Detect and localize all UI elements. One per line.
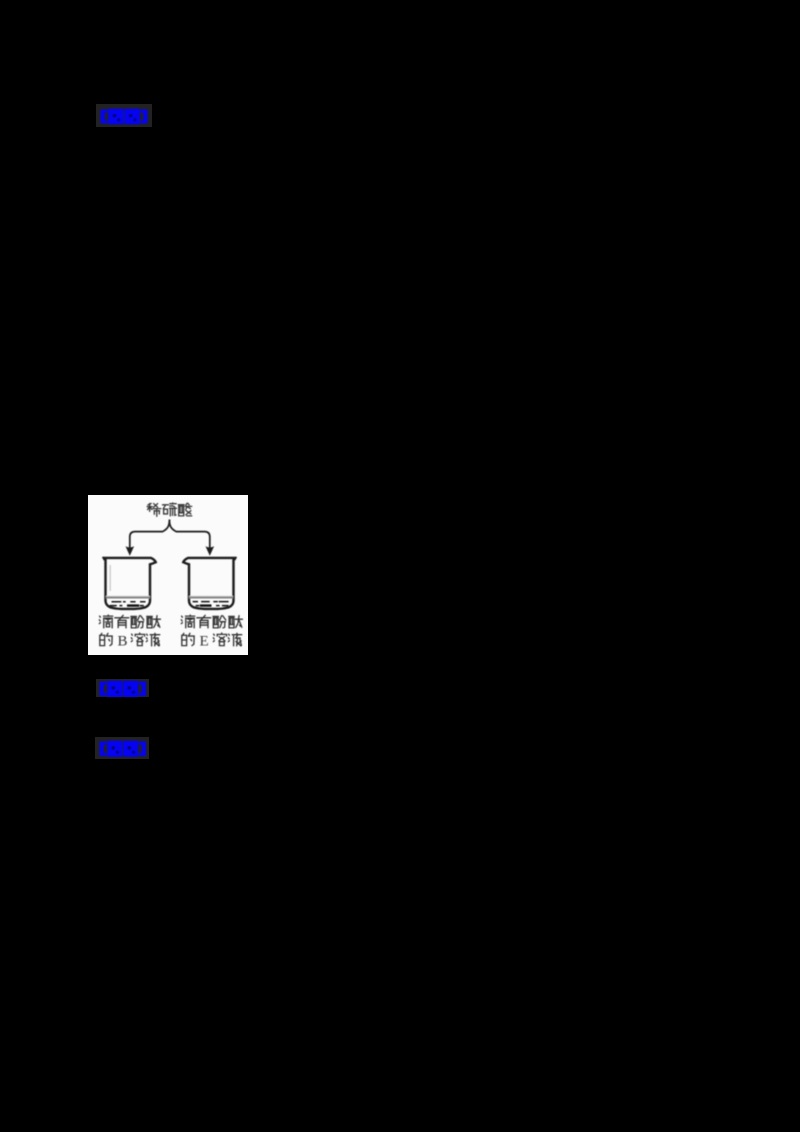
svg-text:B: B xyxy=(118,634,128,650)
label 【详解】 xyxy=(96,738,152,760)
label 【分析】 xyxy=(96,678,152,700)
label 的B溶液 (left) xyxy=(101,633,102,635)
analysis-label halo 2 xyxy=(96,679,149,697)
forked arrow xyxy=(130,520,170,548)
label 滴有酚酞 (left) xyxy=(99,616,102,617)
left beaker xyxy=(103,558,156,609)
liquid surface left xyxy=(106,595,150,597)
diagram image (two beakers with dilute sulfuric acid) xyxy=(88,495,248,655)
right beaker xyxy=(183,558,236,609)
graduation mark xyxy=(109,565,111,591)
detail-label halo 3 xyxy=(95,737,149,759)
liquid surface right xyxy=(189,595,233,597)
label 的E溶液 (right) xyxy=(183,633,184,635)
text 稀硫酸 xyxy=(148,503,151,505)
answer-label halo 1 xyxy=(96,104,152,127)
label 滴有酚酞 (right) xyxy=(181,616,184,617)
label 【答案】 xyxy=(94,105,154,129)
svg-text:E: E xyxy=(200,634,209,650)
